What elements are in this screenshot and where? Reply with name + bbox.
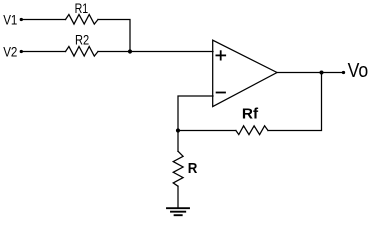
op-amp plus input marker (216, 51, 225, 59)
label R1 (75, 0, 89, 16)
label Vo (348, 60, 369, 82)
wire R2 to op-amp noninverting input (98, 51, 213, 53)
node B junction (176, 128, 180, 132)
node A junction (128, 49, 132, 53)
wire op-amp output to Vo terminal (277, 72, 344, 74)
wire node B to resistor R (177, 131, 179, 152)
terminal V2 (20, 50, 23, 53)
svg-text:R2: R2 (75, 32, 89, 48)
resistor R1 (66, 15, 99, 25)
node output junction (320, 71, 324, 75)
label V1 (3, 11, 17, 27)
svg-text:Vo: Vo (348, 60, 369, 82)
svg-text:V1: V1 (3, 11, 17, 27)
wire node B to op-amp inverting input (178, 96, 213, 131)
wire output down to feedback (268, 73, 322, 131)
svg-text:Rf: Rf (242, 106, 259, 123)
svg-text:V2: V2 (3, 43, 17, 59)
resistor R (173, 151, 183, 186)
label R2 (75, 32, 89, 48)
wire V2 to R2 (21, 51, 65, 53)
terminal Vo (342, 71, 345, 74)
resistor R2 (66, 47, 99, 57)
terminal V1 (20, 18, 23, 21)
svg-text:R: R (188, 160, 198, 177)
wire V1 to R1 (21, 19, 65, 21)
ground (167, 208, 189, 215)
label V2 (3, 43, 17, 59)
svg-text:R1: R1 (75, 0, 89, 16)
op-amp U1 (213, 40, 277, 106)
label Rf (242, 106, 259, 123)
wire R to ground (177, 186, 179, 208)
wire R1 to node A (98, 20, 130, 52)
resistor Rf (236, 126, 268, 135)
op-amp minus input marker (217, 92, 225, 94)
wire Rf to node B (178, 130, 236, 132)
label R (188, 160, 198, 177)
